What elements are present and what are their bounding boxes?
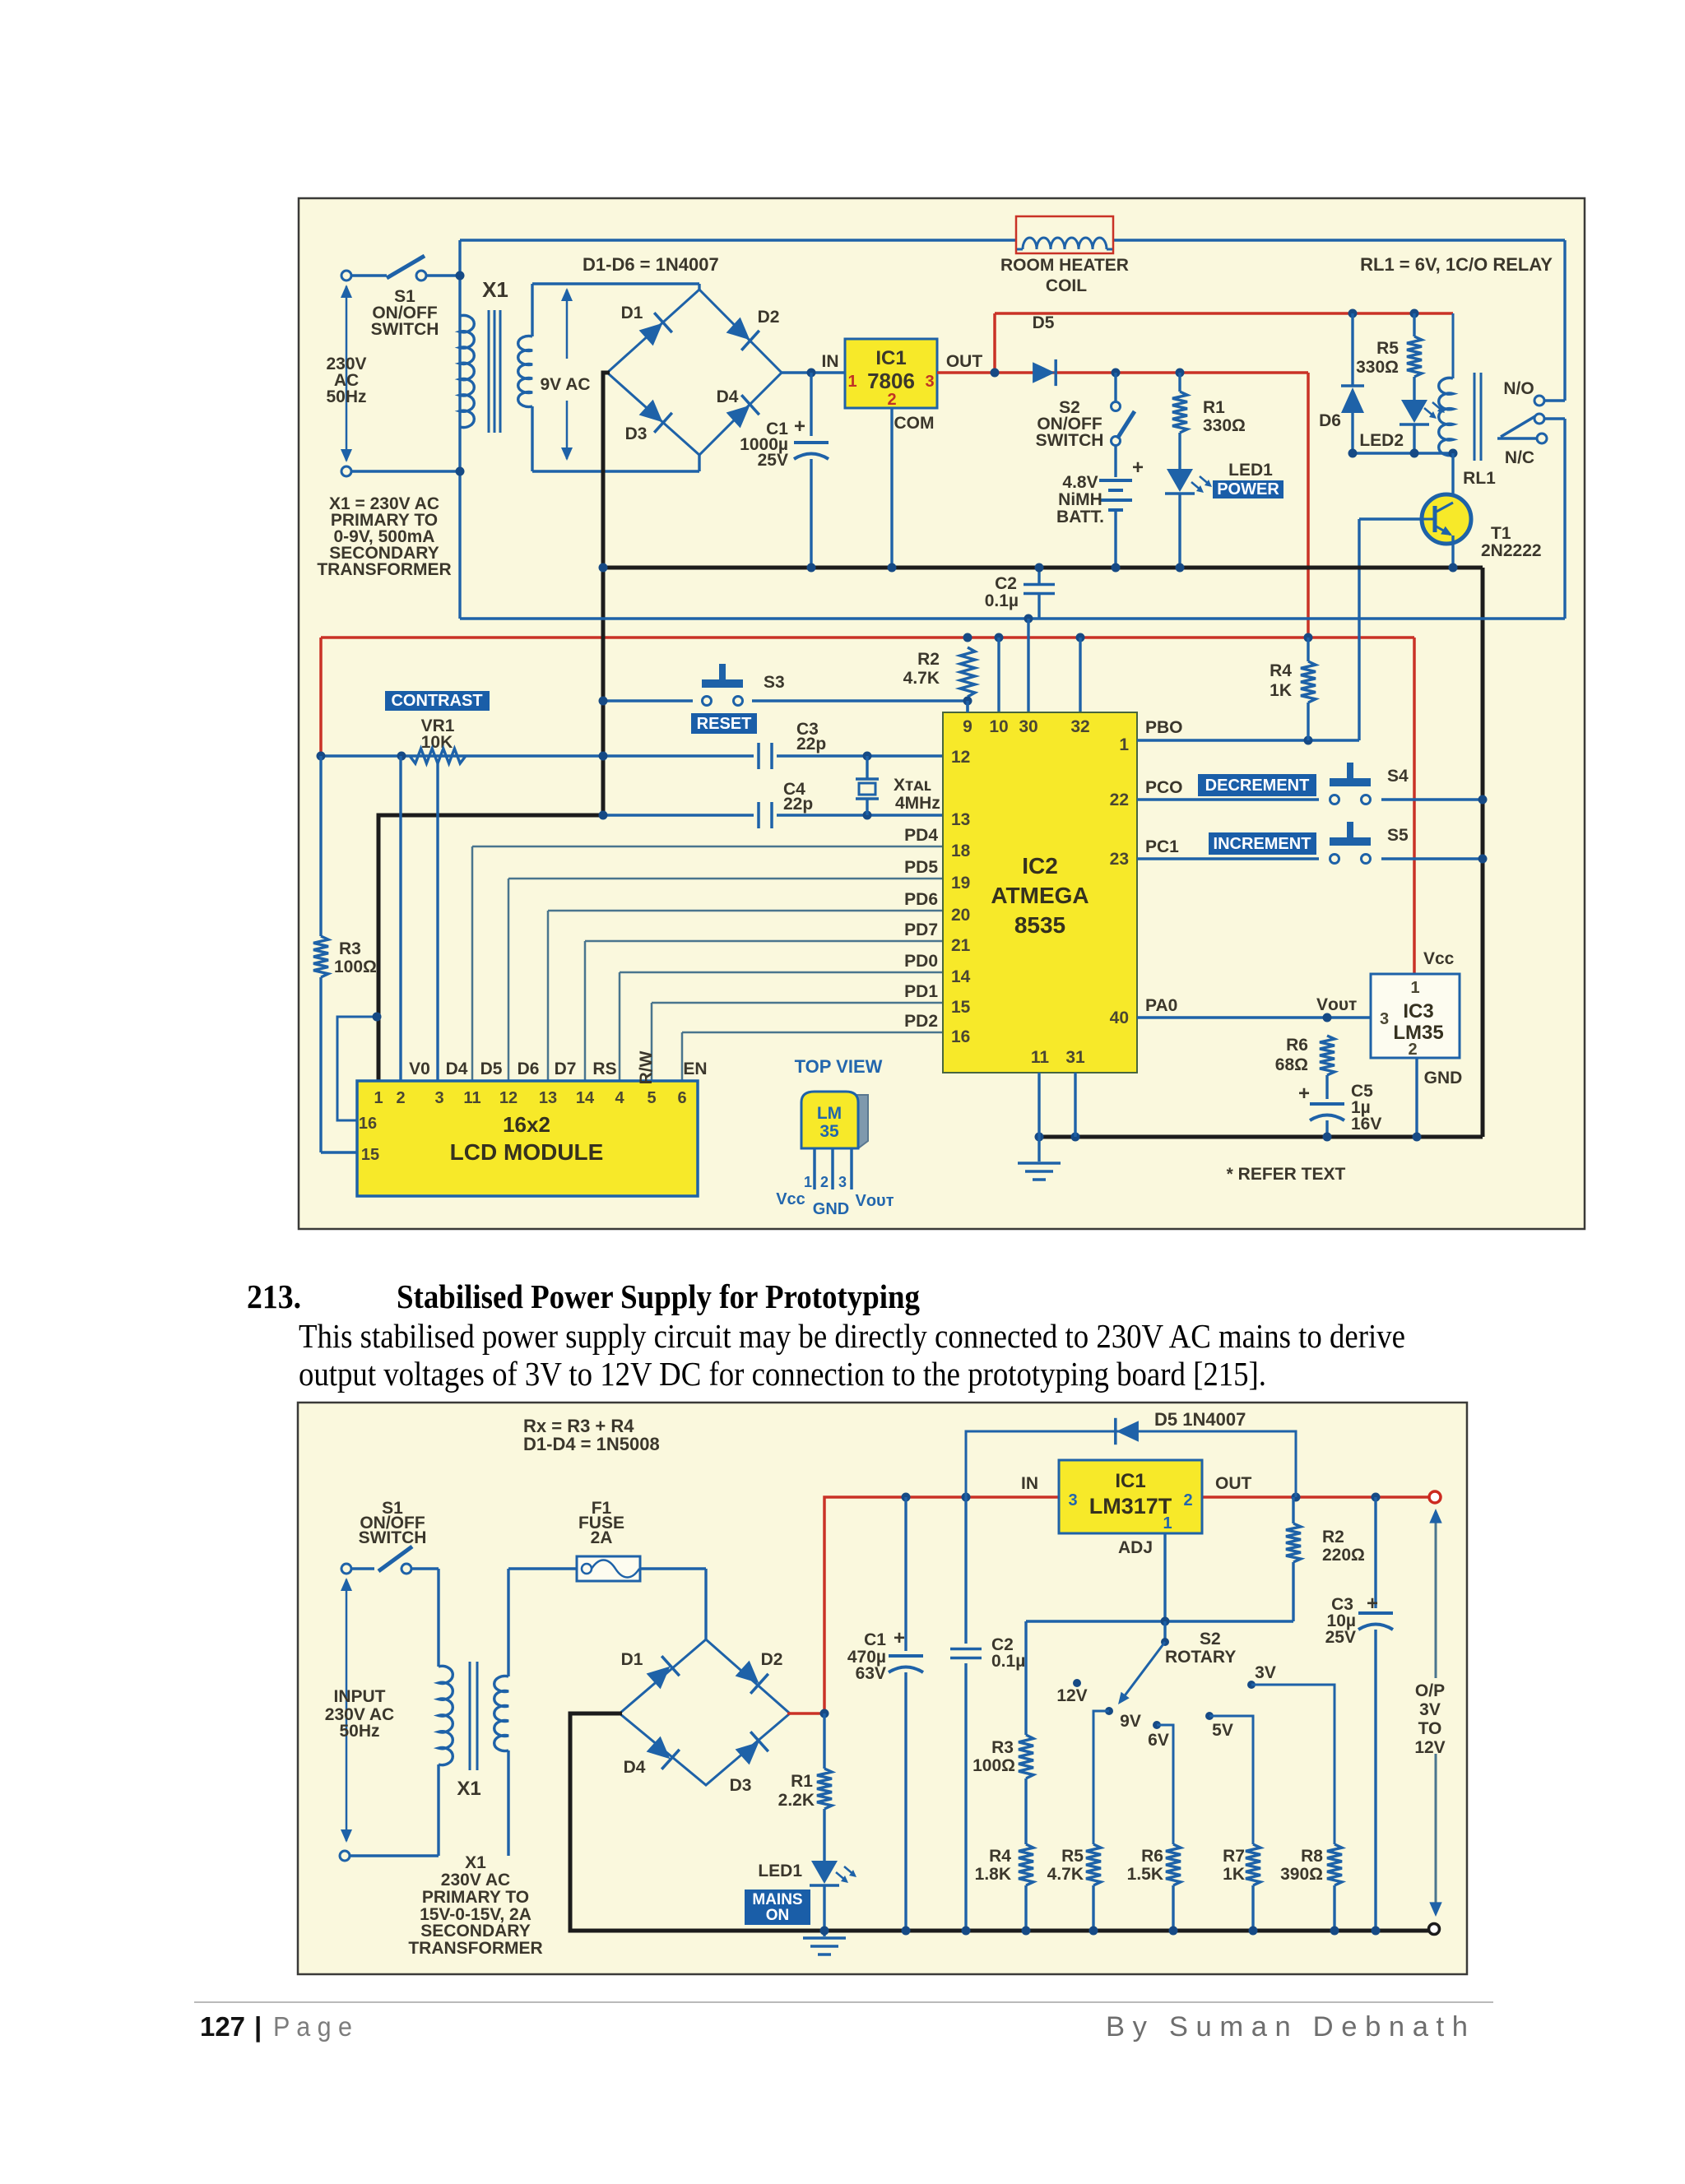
- svg-text:63V: 63V: [856, 1664, 886, 1683]
- svg-text:OUT: OUT: [946, 352, 983, 371]
- svg-text:S4: S4: [1387, 767, 1409, 786]
- svg-text:ROTARY: ROTARY: [1165, 1648, 1236, 1667]
- svg-text:100Ω: 100Ω: [334, 958, 377, 976]
- svg-text:15: 15: [951, 998, 971, 1017]
- svg-text:3: 3: [434, 1089, 443, 1107]
- svg-text:6: 6: [677, 1089, 686, 1107]
- svg-text:2: 2: [1408, 1041, 1417, 1059]
- svg-text:S5: S5: [1387, 826, 1409, 845]
- svg-text:N/O: N/O: [1503, 379, 1534, 398]
- svg-text:SWITCH: SWITCH: [1036, 431, 1104, 450]
- svg-text:MAINS: MAINS: [752, 1891, 802, 1908]
- svg-text:LM317T: LM317T: [1089, 1494, 1172, 1519]
- svg-text:TOP VIEW: TOP VIEW: [795, 1056, 883, 1077]
- svg-text:4.7K: 4.7K: [903, 669, 940, 688]
- svg-text:PA0: PA0: [1145, 996, 1177, 1015]
- svg-text:R6: R6: [1286, 1036, 1308, 1055]
- svg-text:2.2K: 2.2K: [778, 1791, 815, 1810]
- svg-text:0.1µ: 0.1µ: [991, 1652, 1025, 1671]
- svg-text:11: 11: [463, 1089, 480, 1107]
- svg-text:4MHz: 4MHz: [895, 794, 940, 813]
- svg-text:R4: R4: [1270, 661, 1292, 680]
- svg-text:100Ω: 100Ω: [972, 1756, 1015, 1775]
- svg-text:35: 35: [819, 1122, 839, 1141]
- svg-text:IC1: IC1: [1115, 1470, 1145, 1492]
- svg-text:D1-D6 = 1N4007: D1-D6 = 1N4007: [583, 254, 719, 275]
- svg-text:31: 31: [1065, 1048, 1085, 1067]
- svg-text:BATT.: BATT.: [1056, 508, 1104, 526]
- svg-text:O/P: O/P: [1415, 1681, 1445, 1700]
- svg-text:+: +: [1367, 1593, 1378, 1615]
- svg-text:D4: D4: [624, 1758, 646, 1777]
- svg-text:1.8K: 1.8K: [975, 1865, 1011, 1884]
- svg-text:S2: S2: [1200, 1630, 1221, 1648]
- svg-text:8535: 8535: [1014, 912, 1065, 938]
- svg-text:PCO: PCO: [1145, 778, 1183, 797]
- svg-text:23: 23: [1110, 850, 1129, 869]
- svg-text:RS: RS: [592, 1060, 616, 1078]
- svg-text:3V: 3V: [1419, 1700, 1441, 1719]
- svg-text:COM: COM: [894, 414, 935, 433]
- svg-text:1.5K: 1.5K: [1127, 1865, 1163, 1884]
- svg-text:R2: R2: [1322, 1528, 1344, 1546]
- svg-text:COIL: COIL: [1046, 276, 1087, 295]
- svg-text:2: 2: [887, 391, 896, 409]
- svg-text:DECREMENT: DECREMENT: [1205, 777, 1310, 795]
- svg-text:D5: D5: [480, 1060, 503, 1078]
- svg-text:25V: 25V: [758, 451, 788, 470]
- svg-text:0.1µ: 0.1µ: [985, 591, 1019, 610]
- svg-text:LM35: LM35: [1393, 1022, 1443, 1044]
- svg-text:PD7: PD7: [904, 920, 938, 939]
- svg-text:ON: ON: [766, 1907, 790, 1924]
- svg-text:9V AC: 9V AC: [540, 375, 590, 394]
- svg-text:9V: 9V: [1120, 1712, 1141, 1731]
- svg-text:PRIMARY TO: PRIMARY TO: [422, 1888, 529, 1907]
- svg-text:12V: 12V: [1414, 1738, 1445, 1757]
- svg-text:18: 18: [951, 842, 971, 860]
- svg-text:IN: IN: [1021, 1474, 1038, 1493]
- svg-text:INPUT: INPUT: [334, 1687, 386, 1706]
- svg-text:10: 10: [989, 717, 1008, 736]
- svg-text:IC2: IC2: [1022, 853, 1058, 879]
- svg-text:68Ω: 68Ω: [1275, 1055, 1308, 1074]
- svg-text:1K: 1K: [1223, 1865, 1245, 1884]
- svg-text:+: +: [894, 1627, 905, 1649]
- svg-text:SWITCH: SWITCH: [371, 320, 439, 339]
- svg-text:2: 2: [1183, 1491, 1192, 1509]
- svg-text:3: 3: [1380, 1010, 1389, 1028]
- svg-text:3: 3: [925, 373, 934, 391]
- svg-text:1: 1: [1163, 1514, 1172, 1533]
- svg-text:21: 21: [951, 936, 971, 955]
- svg-text:+: +: [1132, 457, 1144, 479]
- svg-text:PD0: PD0: [904, 952, 938, 971]
- svg-text:TO: TO: [1418, 1719, 1442, 1738]
- svg-text:D4: D4: [446, 1060, 468, 1078]
- svg-text:15: 15: [361, 1146, 379, 1164]
- svg-text:12: 12: [499, 1089, 518, 1107]
- svg-text:40: 40: [1110, 1009, 1129, 1027]
- svg-text:R8: R8: [1301, 1847, 1323, 1866]
- svg-text:NiMH: NiMH: [1058, 490, 1102, 509]
- svg-text:D5: D5: [1033, 313, 1055, 332]
- svg-text:R4: R4: [989, 1847, 1011, 1866]
- svg-text:50Hz: 50Hz: [326, 387, 366, 406]
- svg-text:3: 3: [1068, 1491, 1077, 1509]
- svg-text:IC1: IC1: [875, 347, 906, 369]
- svg-text:PD1: PD1: [904, 982, 938, 1001]
- svg-text:SWITCH: SWITCH: [359, 1528, 427, 1547]
- svg-text:OUT: OUT: [1215, 1474, 1252, 1493]
- svg-text:IN: IN: [822, 352, 839, 371]
- svg-text:C2: C2: [995, 574, 1017, 593]
- svg-text:P a g e: P a g e: [273, 2011, 352, 2042]
- svg-text:16: 16: [359, 1115, 377, 1133]
- svg-text:D4: D4: [717, 387, 739, 406]
- svg-text:230V AC: 230V AC: [441, 1871, 510, 1890]
- svg-text:+: +: [1298, 1083, 1310, 1105]
- svg-text:D6: D6: [518, 1060, 540, 1078]
- svg-text:GND: GND: [1424, 1069, 1463, 1087]
- svg-text:RESET: RESET: [697, 715, 752, 733]
- svg-text:14: 14: [576, 1089, 595, 1107]
- svg-text:PD2: PD2: [904, 1012, 938, 1031]
- svg-text:30: 30: [1019, 717, 1037, 736]
- svg-text:Vᴏᴜᴛ: Vᴏᴜᴛ: [1316, 995, 1357, 1014]
- svg-text:LM: LM: [817, 1104, 842, 1123]
- svg-text:D2: D2: [761, 1650, 783, 1669]
- svg-text:R6: R6: [1141, 1847, 1163, 1866]
- svg-text:13: 13: [539, 1089, 557, 1107]
- svg-text:RL1: RL1: [1463, 469, 1496, 488]
- svg-text:25V: 25V: [1325, 1628, 1356, 1647]
- svg-text:RL1 = 6V, 1C/O RELAY: RL1 = 6V, 1C/O RELAY: [1360, 254, 1553, 275]
- svg-text:POWER: POWER: [1217, 480, 1279, 498]
- svg-text:R2: R2: [917, 650, 940, 669]
- svg-text:INCREMENT: INCREMENT: [1214, 835, 1311, 853]
- svg-text:D1: D1: [621, 1650, 643, 1669]
- svg-text:LED1: LED1: [1228, 461, 1273, 480]
- svg-text:SECONDARY: SECONDARY: [420, 1922, 530, 1941]
- svg-text:PD4: PD4: [904, 826, 938, 845]
- svg-text:R5: R5: [1376, 339, 1399, 358]
- svg-text:N/C: N/C: [1505, 448, 1534, 467]
- svg-text:D2: D2: [758, 308, 780, 327]
- svg-text:1: 1: [374, 1089, 383, 1107]
- svg-text:IC3: IC3: [1403, 1000, 1433, 1022]
- svg-text:R3: R3: [991, 1738, 1014, 1757]
- svg-text:V0: V0: [409, 1060, 430, 1078]
- svg-text:R1: R1: [1203, 398, 1225, 417]
- svg-text:R5: R5: [1061, 1847, 1084, 1866]
- svg-text:T1: T1: [1491, 524, 1511, 543]
- svg-text:10K: 10K: [421, 733, 453, 752]
- svg-text:X1: X1: [465, 1853, 486, 1872]
- svg-text:5V: 5V: [1212, 1721, 1233, 1740]
- svg-text:1: 1: [1410, 979, 1419, 997]
- svg-text:32: 32: [1070, 717, 1089, 736]
- svg-text:R/W: R/W: [637, 1050, 656, 1084]
- svg-text:ROOM HEATER: ROOM HEATER: [1000, 256, 1129, 275]
- svg-text:213.: 213.: [247, 1277, 301, 1315]
- svg-text:2A: 2A: [591, 1528, 613, 1547]
- svg-text:1: 1: [1119, 735, 1129, 754]
- svg-text:16x2: 16x2: [503, 1112, 550, 1137]
- svg-text:CONTRAST: CONTRAST: [391, 692, 482, 710]
- svg-text:Stabilised Power Supply for Pr: Stabilised Power Supply for Prototyping: [397, 1277, 920, 1315]
- svg-text:5: 5: [647, 1089, 656, 1107]
- svg-text:22p: 22p: [783, 795, 813, 814]
- svg-text:12V: 12V: [1056, 1686, 1087, 1705]
- svg-text:|: |: [254, 2011, 262, 2042]
- svg-text:22: 22: [1110, 791, 1129, 809]
- svg-text:4.7K: 4.7K: [1047, 1865, 1084, 1884]
- svg-text:B y S u m a n D e b n a t h: B y S u m a n D e b n a t h: [1106, 2011, 1468, 2043]
- svg-text:* REFER TEXT: * REFER TEXT: [1227, 1165, 1346, 1184]
- svg-text:Xᴛᴀʟ: Xᴛᴀʟ: [894, 776, 931, 795]
- svg-text:TRANSFORMER: TRANSFORMER: [317, 560, 451, 579]
- svg-text:390Ω: 390Ω: [1280, 1865, 1323, 1884]
- svg-text:D1-D4 = 1N5008: D1-D4 = 1N5008: [523, 1434, 660, 1454]
- svg-text:+: +: [794, 415, 805, 438]
- svg-text:12: 12: [951, 748, 970, 767]
- svg-text:330Ω: 330Ω: [1356, 358, 1399, 377]
- svg-text:D3: D3: [730, 1776, 752, 1795]
- svg-text:D1: D1: [621, 304, 643, 322]
- svg-text:3V: 3V: [1255, 1663, 1276, 1682]
- svg-text:4.8V: 4.8V: [1062, 473, 1098, 492]
- svg-text:D3: D3: [625, 424, 648, 443]
- svg-text:X1: X1: [482, 277, 508, 302]
- svg-text:LED1: LED1: [758, 1862, 802, 1880]
- svg-text:R3: R3: [339, 939, 361, 958]
- svg-text:output voltages of 3V to 12V D: output voltages of 3V to 12V DC for conn…: [299, 1355, 1266, 1393]
- svg-text:13: 13: [951, 810, 970, 829]
- svg-text:9: 9: [963, 717, 972, 736]
- svg-text:6V: 6V: [1148, 1731, 1169, 1750]
- svg-text:PBO: PBO: [1145, 718, 1183, 737]
- svg-text:3: 3: [838, 1174, 847, 1190]
- svg-text:TRANSFORMER: TRANSFORMER: [408, 1939, 542, 1958]
- svg-text:EN: EN: [683, 1060, 707, 1078]
- svg-text:4: 4: [615, 1089, 624, 1107]
- svg-text:22p: 22p: [796, 735, 826, 754]
- svg-text:R1: R1: [791, 1772, 813, 1791]
- svg-text:X1: X1: [457, 1778, 480, 1800]
- svg-text:R7: R7: [1223, 1847, 1245, 1866]
- svg-text:PC1: PC1: [1145, 837, 1179, 856]
- svg-text:D5 1N4007: D5 1N4007: [1154, 1409, 1246, 1430]
- svg-text:19: 19: [951, 874, 970, 893]
- svg-text:Vᴏᴜᴛ: Vᴏᴜᴛ: [856, 1192, 894, 1210]
- svg-text:ATMEGA: ATMEGA: [991, 883, 1089, 908]
- svg-text:D7: D7: [555, 1060, 577, 1078]
- svg-text:2N2222: 2N2222: [1481, 541, 1542, 560]
- svg-text:C1: C1: [864, 1630, 886, 1649]
- svg-text:LCD MODULE: LCD MODULE: [450, 1139, 604, 1165]
- svg-text:LED2: LED2: [1359, 431, 1404, 450]
- svg-text:This stabilised power supply c: This stabilised power supply circuit may…: [299, 1317, 1405, 1355]
- svg-text:GND: GND: [813, 1200, 849, 1218]
- svg-text:D6: D6: [1319, 411, 1341, 430]
- svg-text:1K: 1K: [1270, 681, 1292, 700]
- svg-text:ADJ: ADJ: [1118, 1538, 1153, 1557]
- svg-text:1: 1: [847, 373, 856, 391]
- svg-text:2: 2: [396, 1089, 405, 1107]
- svg-text:2: 2: [820, 1174, 829, 1190]
- svg-text:127: 127: [200, 2011, 245, 2042]
- svg-text:14: 14: [951, 967, 971, 986]
- svg-text:Vᴄᴄ: Vᴄᴄ: [776, 1190, 805, 1208]
- svg-text:1: 1: [804, 1174, 812, 1190]
- svg-text:16: 16: [951, 1027, 970, 1046]
- svg-text:7806: 7806: [867, 369, 915, 393]
- svg-text:PD5: PD5: [904, 858, 938, 877]
- svg-text:PD6: PD6: [904, 890, 938, 909]
- svg-text:50Hz: 50Hz: [339, 1722, 379, 1741]
- svg-text:Vᴄᴄ: Vᴄᴄ: [1423, 949, 1455, 968]
- svg-text:20: 20: [951, 906, 970, 925]
- svg-text:S3: S3: [764, 673, 785, 692]
- svg-text:16V: 16V: [1351, 1115, 1381, 1134]
- svg-text:11: 11: [1031, 1048, 1050, 1067]
- svg-text:330Ω: 330Ω: [1203, 416, 1246, 435]
- svg-text:220Ω: 220Ω: [1322, 1546, 1365, 1565]
